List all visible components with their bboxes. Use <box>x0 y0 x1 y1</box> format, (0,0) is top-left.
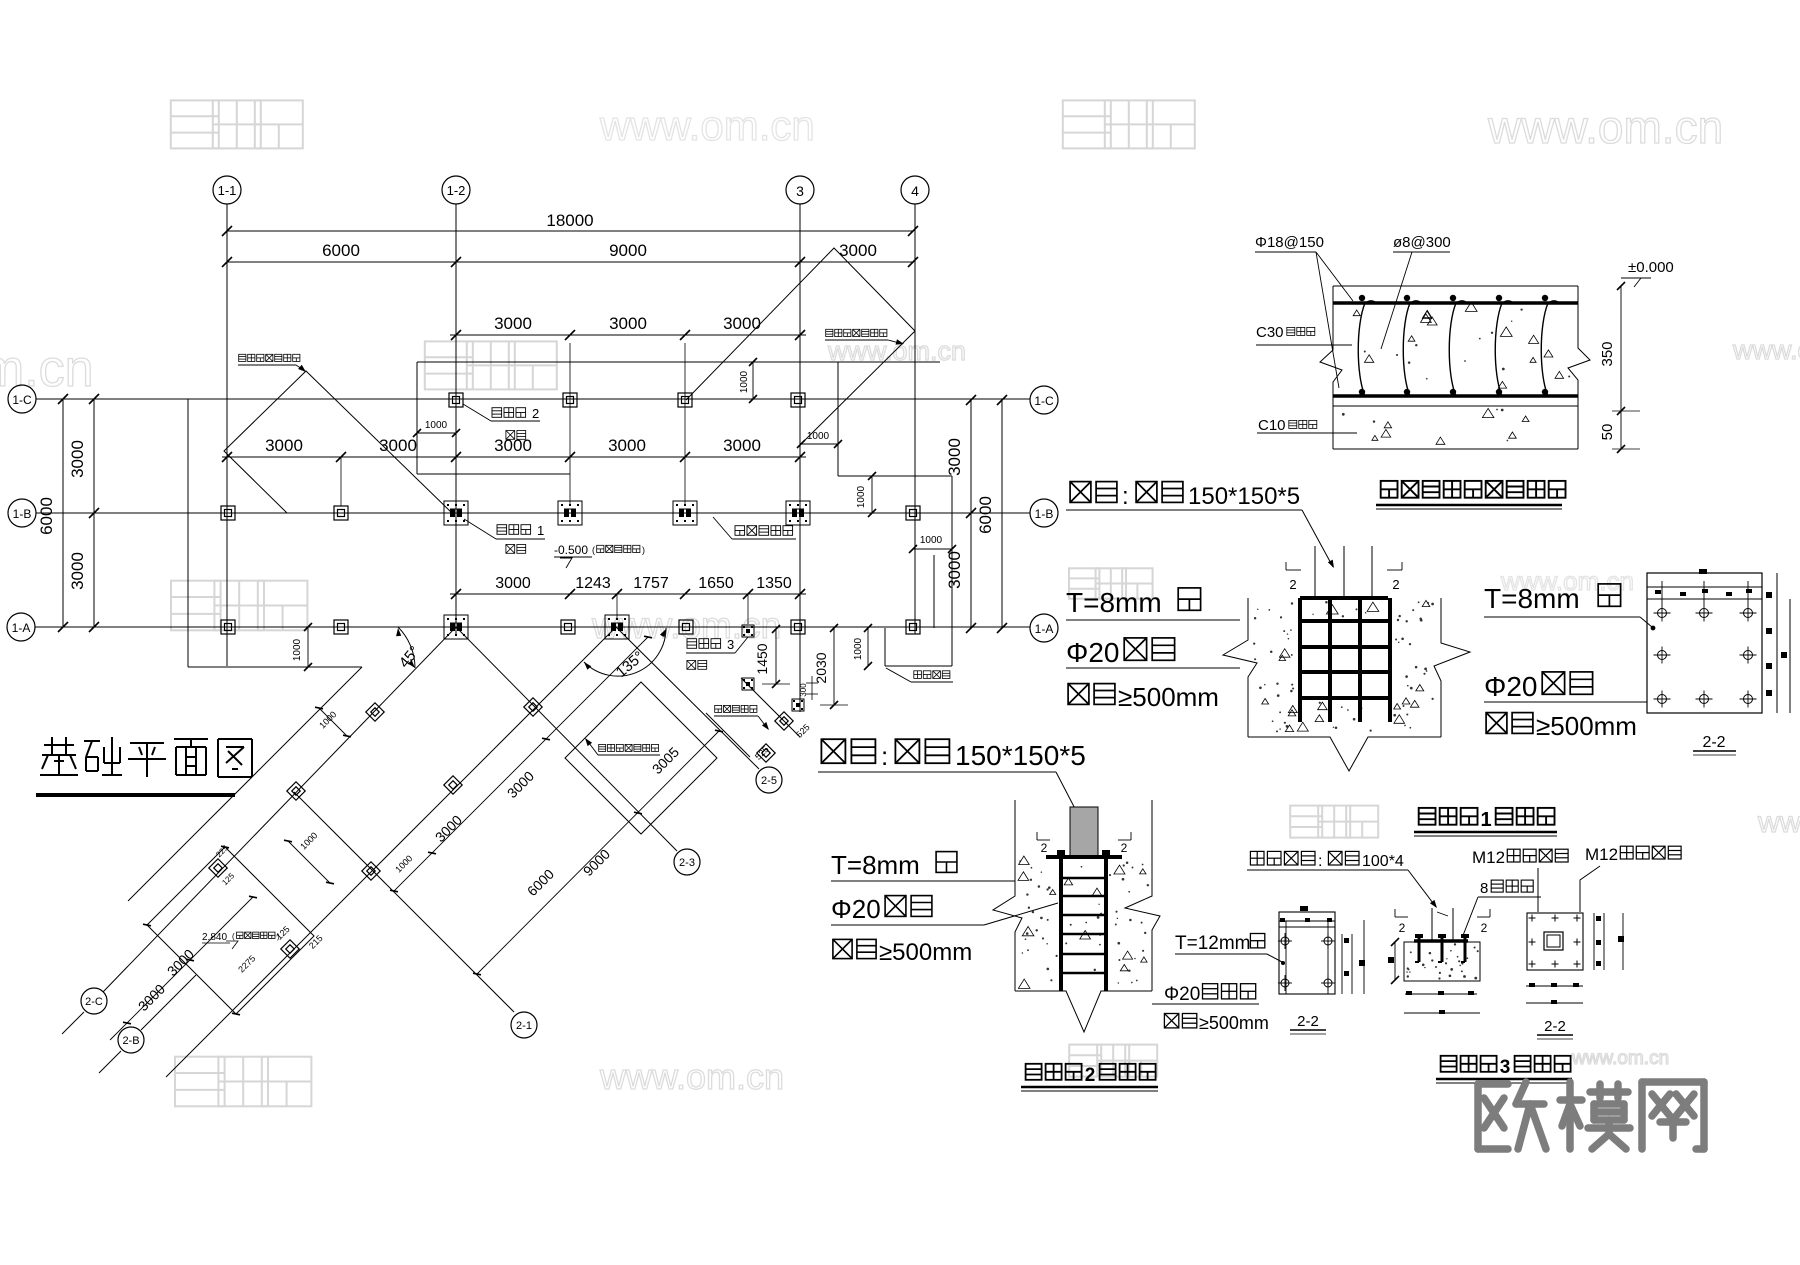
part3 right plan plate <box>1527 913 1583 970</box>
svg-text:±0.000: ±0.000 <box>1628 259 1674 276</box>
svg-text:1000: 1000 <box>920 535 943 546</box>
svg-text:3: 3 <box>1500 1057 1511 1078</box>
part3 middle base plate <box>1414 939 1468 943</box>
svg-text:): ) <box>642 545 645 555</box>
svg-text:2030: 2030 <box>813 652 829 683</box>
svg-text:300: 300 <box>799 683 808 697</box>
columns on grid 1-B large (embedded part 1) <box>444 501 468 525</box>
svg-text:1-C: 1-C <box>1034 394 1054 408</box>
embedded part2 concrete <box>993 857 1022 991</box>
label embedded part 3 <box>687 639 697 649</box>
svg-text:150*150*5: 150*150*5 <box>1188 483 1300 510</box>
grid circle 1-A left <box>7 613 35 641</box>
dim row 6000/9000/3000 <box>227 261 913 263</box>
grid line 1-1 vertical <box>226 204 228 666</box>
label second-floor projection right <box>826 329 833 336</box>
grid circle 3 <box>786 176 814 204</box>
columns on grid 1-C (embedded part 2) <box>449 393 463 407</box>
svg-text:2: 2 <box>1121 841 1128 855</box>
platform column label <box>1250 851 1264 865</box>
grid circle 4 <box>901 176 929 204</box>
dim 1000 right middle <box>871 476 873 513</box>
embedded part1 title <box>1419 808 1436 825</box>
svg-text:50: 50 <box>1599 424 1616 441</box>
svg-text:150*150*5: 150*150*5 <box>955 740 1086 771</box>
svg-text:6000: 6000 <box>37 497 56 535</box>
part3 left plan plate <box>1279 912 1335 994</box>
svg-text:18000: 18000 <box>546 211 593 230</box>
svg-text:2: 2 <box>1399 921 1406 935</box>
embedded part1 base plate <box>1300 596 1388 600</box>
wing rotated columns on Q2 <box>524 698 542 716</box>
plan title JiChuPingMianTu <box>44 744 74 746</box>
grid line 1-2 vertical <box>455 204 457 634</box>
grid line 3 vertical <box>799 204 801 712</box>
svg-text:3000: 3000 <box>945 551 964 589</box>
wing grid circle 2-3 <box>674 849 700 875</box>
svg-text:1-2: 1-2 <box>447 183 466 198</box>
embedded part1 concrete block <box>1223 598 1257 737</box>
wing grid circle 2-C <box>81 988 107 1014</box>
raft stirrups <box>1358 303 1365 396</box>
svg-text:2-5: 2-5 <box>761 775 777 787</box>
svg-text:Φ18@150: Φ18@150 <box>1255 234 1324 251</box>
svg-text:T=8mm: T=8mm <box>831 850 920 880</box>
svg-text:6000: 6000 <box>322 241 360 260</box>
svg-text:3000: 3000 <box>68 440 87 478</box>
svg-text:1000: 1000 <box>807 431 830 442</box>
svg-text:2-1: 2-1 <box>516 1020 532 1032</box>
dim 1000 top right <box>752 362 754 399</box>
dim row bottom 3000/1243/1757/1650/1350 <box>450 593 806 595</box>
beam edge outline right <box>837 362 839 476</box>
columns on grid 1-B small <box>221 506 235 520</box>
svg-text:4: 4 <box>911 183 919 199</box>
svg-text:1000: 1000 <box>292 638 303 661</box>
wing grid line Q1 diagonal <box>103 627 456 992</box>
svg-text:≥500mm: ≥500mm <box>1536 711 1637 741</box>
svg-text:T=12mm: T=12mm <box>1175 933 1251 954</box>
dim 1450 <box>775 629 777 684</box>
svg-text:1-B: 1-B <box>1035 507 1054 521</box>
stair projection rails <box>741 678 800 737</box>
wing rotated columns on Q1 <box>366 703 384 721</box>
right dim 6000 line <box>1001 400 1003 628</box>
raft top rebar bar <box>1333 301 1578 305</box>
label stair projection <box>715 705 722 712</box>
grid line 1-B horizontal <box>36 512 1030 514</box>
svg-text:3000: 3000 <box>839 241 877 260</box>
svg-text:3000: 3000 <box>608 436 646 455</box>
wing grid line Q2 diagonal <box>166 627 616 1077</box>
wing grid circle 2-B <box>118 1027 144 1053</box>
svg-text:3000: 3000 <box>495 575 531 592</box>
svg-text:1-B: 1-B <box>13 507 32 521</box>
part3 leader dot from T=12mm <box>1266 954 1283 963</box>
part3 middle section marks <box>1395 916 1408 918</box>
labels right length>=500 <box>1486 713 1507 734</box>
svg-text:1-C: 1-C <box>12 393 32 407</box>
svg-text:C30: C30 <box>1256 324 1284 341</box>
columns on grid 1-A large <box>444 615 468 639</box>
svg-text:om.cn: om.cn <box>0 340 94 398</box>
svg-text:): ) <box>277 932 280 941</box>
labels left length>=500 <box>1068 684 1089 705</box>
svg-text:3000: 3000 <box>494 314 532 333</box>
label second-floor projection left <box>239 354 246 361</box>
svg-text:Φ20: Φ20 <box>1164 984 1200 1005</box>
raft detail title <box>1381 481 1398 498</box>
svg-text:3000: 3000 <box>723 314 761 333</box>
svg-text:1000: 1000 <box>425 420 448 431</box>
embedded part1 section marks <box>1286 569 1301 571</box>
grid circle 1-A right <box>1030 614 1058 642</box>
svg-text:350: 350 <box>1599 341 1616 366</box>
svg-text:1757: 1757 <box>633 575 669 592</box>
45 degree angle arc <box>398 627 415 668</box>
svg-text::: : <box>1122 483 1129 510</box>
svg-text:8: 8 <box>1480 880 1488 897</box>
svg-text:3000: 3000 <box>379 436 417 455</box>
svg-text:2-3: 2-3 <box>679 857 695 869</box>
wing grid circle 2-5 <box>756 767 782 793</box>
dim row 3000x5 middle <box>222 456 806 458</box>
grid circle 1-B left <box>8 499 36 527</box>
svg-text:(: ( <box>592 545 595 555</box>
short column label lower <box>821 739 845 763</box>
embedded part1 plan bolts <box>1658 609 1667 618</box>
dim witness lines <box>569 343 571 506</box>
embedded part2 section marks <box>1037 839 1050 841</box>
embedded part2 anchor ladder <box>1059 857 1063 991</box>
svg-text:1350: 1350 <box>756 575 792 592</box>
svg-text:www.om.cn: www.om.cn <box>1571 1048 1669 1069</box>
svg-text:2-C: 2-C <box>85 996 103 1008</box>
svg-text:1: 1 <box>537 523 544 538</box>
label wing second-floor projection <box>599 744 606 751</box>
label embedded part 2 <box>492 408 502 418</box>
dim 1000 right of grid 4 <box>913 548 952 550</box>
svg-text:2: 2 <box>1041 841 1048 855</box>
svg-text:2-2: 2-2 <box>1702 734 1725 751</box>
part2 labels left length>=500 <box>833 939 852 958</box>
svg-text:2.840: 2.840 <box>202 932 227 943</box>
watermarks <box>171 100 219 148</box>
raft aggregate speckles <box>1491 332 1493 334</box>
dim row 3000x3 upper <box>450 334 806 336</box>
dim 1000 below 1-A right <box>884 628 886 666</box>
svg-text:www.om.cn: www.om.cn <box>599 1056 784 1097</box>
svg-text:T=8mm: T=8mm <box>1066 587 1162 618</box>
plan title underline <box>36 793 235 797</box>
svg-text:1450: 1450 <box>754 643 770 674</box>
svg-text:2: 2 <box>1289 577 1296 592</box>
svg-text:1-A: 1-A <box>1035 622 1054 636</box>
embedded part2 pit walls <box>1014 800 1016 857</box>
svg-text:www.om.cn: www.om.cn <box>1732 335 1800 365</box>
embedded part2 base plate <box>1046 855 1122 859</box>
raft C10 layer bottom line <box>1333 448 1578 450</box>
svg-text:3000: 3000 <box>723 436 761 455</box>
svg-text:2: 2 <box>532 406 539 421</box>
left dim 3000/3000 line <box>93 399 95 627</box>
wing dim 1000 near room <box>288 841 330 883</box>
label bottom frame beam edge <box>735 526 745 536</box>
svg-text:1000: 1000 <box>853 637 864 660</box>
svg-text:T=8mm: T=8mm <box>1484 583 1580 614</box>
svg-text:1000: 1000 <box>739 370 750 393</box>
svg-text:1000: 1000 <box>856 485 867 508</box>
grid circle 1-1 <box>213 176 241 204</box>
wing grid circle 2-1 <box>511 1012 537 1038</box>
svg-text:www.: www. <box>1757 806 1800 839</box>
raft detail concrete section <box>1333 285 1578 287</box>
svg-text:www.om.cn: www.om.cn <box>599 102 815 149</box>
wing grid line P to 2-1 <box>294 792 514 1012</box>
grid line 1-C horizontal <box>36 398 1030 400</box>
beam edge outline left <box>187 399 189 667</box>
wing grid line P to 2-5 <box>616 627 759 769</box>
svg-text:3000: 3000 <box>494 436 532 455</box>
dim 1000 near embedded part 2 <box>417 432 456 434</box>
label foundation edge <box>914 671 922 679</box>
columns on grid 1-A small <box>221 620 235 634</box>
svg-text:1-A: 1-A <box>12 621 31 635</box>
embedded part2 steel column <box>1070 807 1098 857</box>
embedded part3 title <box>1441 1056 1457 1072</box>
part3 left plan dim strip <box>1341 934 1343 994</box>
svg-text:3000: 3000 <box>68 552 87 590</box>
dim 2030 <box>833 628 835 705</box>
svg-text:≥500mm: ≥500mm <box>1199 1013 1269 1033</box>
svg-text:Φ20: Φ20 <box>1066 637 1119 668</box>
second floor projection right diamond <box>686 248 915 400</box>
grid line 1-A horizontal <box>35 626 1030 628</box>
dim row 18000 <box>227 230 913 232</box>
part3 middle steel column <box>1431 908 1433 941</box>
embedded part1 plan right strip <box>1776 573 1778 713</box>
svg-text:2: 2 <box>1392 577 1399 592</box>
wing second floor diamond <box>565 682 717 834</box>
svg-text::: : <box>881 741 888 771</box>
embedded part1 anchor grid <box>1298 598 1302 722</box>
svg-text:2-2: 2-2 <box>1297 1013 1319 1030</box>
wing room outline <box>147 847 314 1014</box>
part3 right plan bottom dims <box>1526 985 1583 987</box>
dim 300 <box>811 676 813 700</box>
svg-text:100*4: 100*4 <box>1362 853 1404 870</box>
svg-text:1: 1 <box>1480 809 1491 831</box>
site logo OuMoWang <box>1478 1080 1508 1088</box>
embedded part1 steel column <box>1314 546 1316 597</box>
svg-text:Φ20: Φ20 <box>831 894 881 924</box>
wing dim line lower-left <box>110 897 253 1040</box>
embedded part2 title <box>1026 1064 1042 1080</box>
svg-text:2: 2 <box>1481 921 1488 935</box>
part3 middle section concrete <box>1404 942 1480 981</box>
part3 middle anchor bolts <box>1418 934 1421 962</box>
svg-text:2: 2 <box>1085 1065 1096 1086</box>
beam edge outline top <box>416 362 418 474</box>
svg-text:3: 3 <box>796 183 804 199</box>
right dim 3000/3000 line <box>970 400 972 628</box>
grid circle 1-C right <box>1030 386 1058 414</box>
beam edge outline wing diagonal <box>128 667 362 901</box>
svg-text:9000: 9000 <box>609 241 647 260</box>
raft right dim 350/50 <box>1620 286 1622 449</box>
svg-text:2-B: 2-B <box>122 1035 139 1047</box>
wing dim line A <box>394 637 648 891</box>
135 degree angle arc <box>584 628 666 676</box>
svg-text:2-2: 2-2 <box>1544 1018 1566 1035</box>
dim 1000 at right diamond <box>801 443 838 445</box>
svg-text:≥500mm: ≥500mm <box>1118 682 1219 712</box>
short column label upper <box>1070 482 1091 503</box>
svg-text:Φ20: Φ20 <box>1484 671 1537 702</box>
svg-text::: : <box>1318 853 1322 870</box>
svg-text:1243: 1243 <box>575 575 611 592</box>
part3 right plan dim strips <box>1593 913 1595 970</box>
label embedded part 1 <box>497 525 507 535</box>
svg-text:www.om.cn: www.om.cn <box>1487 101 1723 153</box>
wing grid line P to 2-3 <box>456 627 677 851</box>
svg-text:3: 3 <box>727 637 734 652</box>
svg-text:1650: 1650 <box>698 575 734 592</box>
raft bottom rebar bar <box>1333 394 1578 398</box>
dim 1000 below 1-A left <box>307 627 309 667</box>
svg-text:M12: M12 <box>1585 845 1618 864</box>
wing dim 1000 upper <box>319 708 347 736</box>
embedded part 3 column and stair columns <box>742 625 754 637</box>
grid line 4 vertical <box>914 204 916 634</box>
grid circle 1-2 <box>442 176 470 204</box>
svg-text:(: ( <box>232 932 235 941</box>
svg-text:ø8@300: ø8@300 <box>1393 234 1451 251</box>
svg-text:≥500mm: ≥500mm <box>879 939 972 966</box>
svg-text:1-1: 1-1 <box>218 183 237 198</box>
part2 labels right length>=500 <box>1164 1014 1178 1028</box>
svg-text:3000: 3000 <box>265 436 303 455</box>
svg-text:3000: 3000 <box>945 438 964 476</box>
embedded part1 plan plate <box>1647 573 1762 713</box>
part3 middle left dim <box>1394 942 1396 980</box>
svg-text:M12: M12 <box>1472 848 1505 867</box>
left dim 6000 line <box>62 399 64 627</box>
part3 middle bottom dims <box>1405 993 1477 995</box>
raft C30 slab bottom line <box>1333 405 1578 407</box>
wing dim line B <box>477 731 719 974</box>
second floor projection left polyline <box>224 371 452 513</box>
svg-text:-0.500: -0.500 <box>554 543 588 557</box>
svg-text:3000: 3000 <box>609 314 647 333</box>
svg-text:6000: 6000 <box>976 496 995 534</box>
svg-text:C10: C10 <box>1258 417 1286 434</box>
grid circle 1-B right <box>1030 499 1058 527</box>
grid circle 1-C left <box>8 385 36 413</box>
